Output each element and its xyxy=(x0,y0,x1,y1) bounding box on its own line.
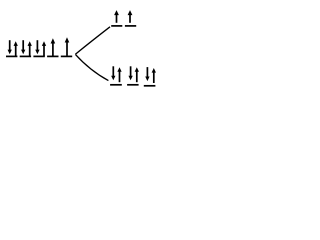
orbital line L3 xyxy=(33,55,44,57)
electron down L1 xyxy=(8,40,12,54)
electron down L3 xyxy=(35,40,39,54)
electron up L1 xyxy=(14,41,18,56)
electron down L2 xyxy=(21,40,25,54)
electron up B1 xyxy=(117,67,121,82)
orbital line L2 xyxy=(20,55,31,57)
electron up B2 xyxy=(135,67,139,82)
electron up U1 xyxy=(114,10,119,23)
electron up B3 xyxy=(152,68,156,83)
orbital line L4 xyxy=(47,55,58,57)
electron up L5 xyxy=(65,37,70,55)
orbital line U1 (upper level) xyxy=(111,25,122,27)
orbital line B1 (lower level) xyxy=(110,84,122,86)
connector to upper eg level xyxy=(75,27,110,54)
electron up L4 xyxy=(51,38,56,56)
orbital line L1 (free ion) xyxy=(6,55,17,57)
orbital line L5 xyxy=(61,55,72,57)
electron up L2 xyxy=(28,41,32,56)
electron up U2 xyxy=(128,10,133,23)
orbital line U2 (upper level) xyxy=(125,25,136,27)
orbital line B2 (lower level) xyxy=(127,84,139,86)
electron down B1 xyxy=(111,66,115,80)
electron up L3 xyxy=(42,41,46,56)
electron down B2 xyxy=(128,66,132,80)
connector to lower t2g level xyxy=(75,54,108,80)
electron down B3 xyxy=(145,67,149,81)
orbital line B3 (lower level) xyxy=(144,85,156,87)
